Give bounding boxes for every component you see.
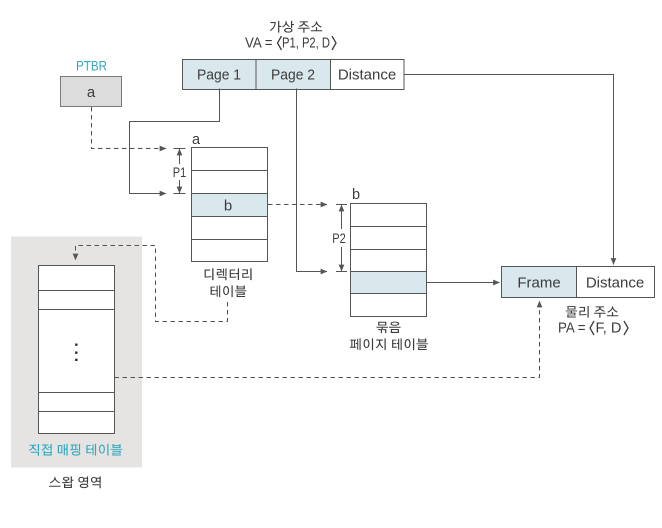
svg-text:Frame: Frame: [517, 275, 560, 292]
PTBR register box a: [61, 77, 122, 107]
svg-text:VA =: VA =: [245, 36, 273, 52]
svg-text:Distance: Distance: [338, 67, 396, 84]
direct mapping table in swap area: [39, 266, 115, 434]
bundle page table (5 rows, row4 highlighted): [351, 204, 427, 317]
solid arrow bundle highlighted row -> Frame: [427, 282, 500, 284]
dashed wire directory table label -> swap table top: [76, 246, 228, 322]
dashed wire swap table -> Frame bottom: [115, 301, 540, 378]
dashed arrow PTBR -> directory table top: [92, 107, 167, 149]
svg-text:a: a: [192, 132, 201, 148]
VA box: Page 1 / Page 2 / Distance: [183, 60, 257, 90]
solid wire VA Distance -> PA Distance: [405, 75, 614, 265]
bundle table label 묶음 페이지 테이블: [377, 322, 401, 334]
virtual-address title 가상 주소: [270, 21, 322, 33]
vertical ellipsis: [75, 344, 77, 346]
physical address box: Frame / Distance: [502, 267, 577, 298]
P1 measure arrow: [179, 149, 181, 164]
svg-text:PTBR: PTBR: [76, 58, 107, 74]
directory table (5 rows, row3 highlighted b): [192, 148, 268, 262]
svg-text:Page 2: Page 2: [271, 67, 315, 84]
dashed arrow directory b -> bundle table top: [268, 204, 327, 206]
svg-text:b: b: [224, 198, 232, 215]
svg-text:F, D: F, D: [596, 321, 622, 337]
direct mapping table label 직접 매핑 테이블: [29, 444, 122, 456]
svg-text:Page 1: Page 1: [197, 67, 241, 84]
svg-text:P1: P1: [173, 164, 187, 180]
swap area label 스왑 영역: [49, 476, 101, 488]
svg-text:a: a: [87, 84, 96, 101]
swap area background: [11, 237, 142, 468]
physical address label 물리 주소: [566, 306, 619, 318]
svg-text:P2: P2: [332, 230, 346, 246]
P2 measure arrow: [341, 205, 343, 229]
directory table label 디렉터리 테이블: [205, 268, 252, 280]
svg-text:P1, P2, D: P1, P2, D: [282, 36, 330, 52]
svg-text:PA =: PA =: [558, 321, 586, 337]
solid wire Page 1 -> directory row3: [130, 89, 220, 194]
svg-text:b: b: [352, 187, 360, 203]
solid wire Page 2 -> bundle row4: [297, 89, 328, 272]
svg-text:Distance: Distance: [586, 275, 644, 292]
